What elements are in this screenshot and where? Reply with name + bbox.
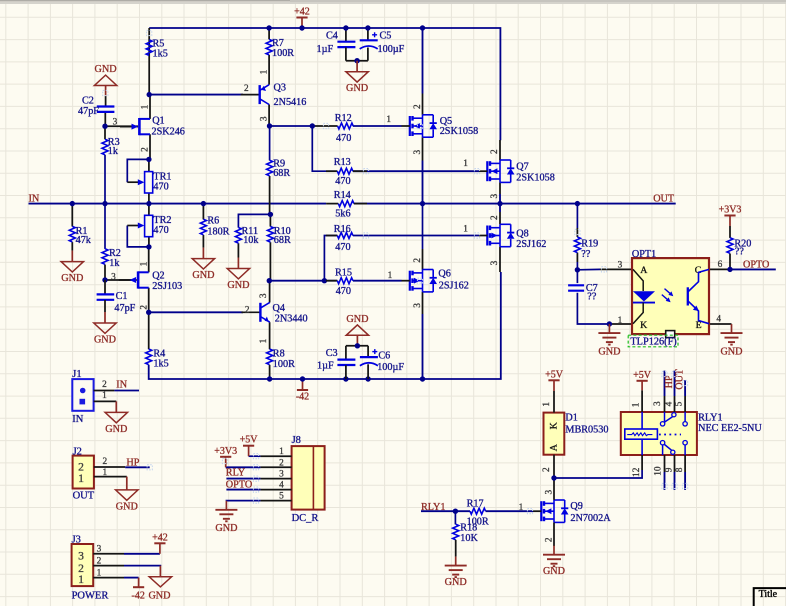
svg-text:180R: 180R: [207, 226, 229, 237]
svg-text:R16: R16: [334, 224, 351, 235]
relay pin 3 wire HP: [664, 396, 666, 412]
wire Q4 emitter to R8: [269, 322, 271, 349]
relay contacts bottom: [660, 441, 664, 445]
ground GND above C3 C6: [356, 335, 358, 346]
svg-text:J8: J8: [292, 435, 301, 446]
capacitor C7: [568, 284, 584, 286]
wire Q5 source to OUT: [422, 137, 424, 160]
svg-text:8: 8: [675, 467, 685, 472]
resistor R18: [454, 511, 456, 524]
svg-text:4: 4: [279, 481, 284, 491]
svg-text:??: ??: [735, 247, 745, 258]
svg-text:5: 5: [675, 401, 685, 406]
ground GND earth at OPT1 K: [607, 321, 612, 326]
svg-text:K: K: [640, 320, 647, 331]
svg-text:A: A: [548, 444, 559, 451]
svg-text:12: 12: [632, 467, 642, 477]
transistor Q2 2SJ103: [137, 271, 140, 288]
svg-text:3: 3: [111, 272, 116, 282]
wire R2 column: [104, 204, 106, 249]
svg-text:DC_R: DC_R: [292, 513, 319, 524]
connector J3 POWER: [72, 544, 94, 586]
svg-text:2: 2: [244, 84, 249, 94]
svg-text:HP: HP: [126, 458, 139, 469]
svg-text:47pF: 47pF: [78, 106, 99, 117]
svg-text:2: 2: [141, 147, 151, 152]
wire Q3 node to R12/R13 tap: [270, 125, 313, 127]
transistor Q9 2N7002A: [540, 501, 542, 521]
wire Q1 drain: [149, 95, 151, 119]
svg-text:2: 2: [102, 380, 107, 390]
wire +42 top rail: [149, 28, 500, 140]
wire R7 top pin: [268, 28, 270, 39]
svg-text:3: 3: [653, 401, 663, 406]
svg-text:47pF: 47pF: [114, 303, 135, 314]
svg-text:J2: J2: [73, 446, 82, 457]
svg-text:1µF: 1µF: [317, 44, 334, 55]
svg-text:GND: GND: [346, 83, 368, 94]
ground GND under R1: [71, 251, 73, 262]
svg-text:GND: GND: [215, 523, 237, 534]
svg-text:470: 470: [336, 286, 351, 297]
svg-text:+5V: +5V: [545, 369, 564, 380]
resistor R3: [102, 139, 108, 155]
wire Q2 gate from R2 node: [105, 279, 131, 281]
svg-text:GND: GND: [61, 273, 83, 284]
J8 pin 3: [260, 478, 291, 480]
svg-text:3: 3: [413, 150, 423, 155]
svg-text:HP: HP: [664, 375, 675, 388]
D1 pin 2 to node: [553, 455, 555, 478]
resistor R13 horizontal: [326, 170, 337, 172]
svg-text:-42: -42: [296, 392, 309, 403]
svg-text:D1: D1: [565, 413, 577, 424]
svg-text:5: 5: [279, 492, 284, 502]
resistor R7: [266, 25, 271, 30]
svg-text:IN: IN: [72, 414, 83, 425]
wire TR1 chain to IN node: [148, 159, 150, 171]
svg-text:1: 1: [519, 503, 524, 513]
svg-text:100R: 100R: [272, 48, 294, 59]
capacitor C3: [345, 346, 347, 360]
svg-text:1µF: 1µF: [317, 360, 334, 371]
wire OPT1 A from R19 node: [577, 268, 600, 270]
wire node to R11: [238, 214, 270, 227]
svg-text:3: 3: [279, 470, 284, 480]
svg-text:1k: 1k: [108, 146, 119, 157]
wire R14 right to OUT label: [354, 203, 676, 205]
svg-text:68R: 68R: [274, 235, 291, 246]
power port +5V at relay: [641, 381, 643, 391]
wire C7 to GND corner and OPT1 pin K: [577, 293, 609, 324]
relay inner pin stubs: [664, 412, 666, 421]
svg-text:10: 10: [653, 466, 663, 476]
wire R8 to rail: [269, 365, 271, 379]
capacitor C1: [104, 280, 106, 294]
svg-text:1: 1: [260, 69, 270, 74]
svg-text:470: 470: [153, 225, 168, 236]
ground GND under R6: [202, 248, 204, 259]
relay pin 12: [641, 455, 643, 470]
junction Q2 source node: [146, 310, 151, 315]
resistor R5: [146, 40, 152, 56]
svg-text:GND: GND: [227, 280, 249, 291]
svg-text:3: 3: [544, 490, 554, 495]
wire C4 C5 common: [346, 60, 368, 62]
wire R5 bottom to node: [148, 40, 150, 95]
svg-text:470: 470: [153, 181, 168, 192]
svg-text:Q9: Q9: [570, 501, 582, 512]
OPT1 LED: [633, 269, 643, 291]
wire R6 column: [202, 204, 204, 220]
svg-text:Q1: Q1: [152, 115, 164, 126]
ground GND at J1: [115, 401, 117, 412]
svg-text:C6: C6: [378, 351, 390, 362]
ground GND under C1: [104, 312, 106, 323]
relay coil feed line: [641, 412, 643, 429]
svg-text:2: 2: [490, 215, 500, 220]
svg-text:1: 1: [259, 338, 269, 343]
ground GND earth under Q9: [553, 546, 555, 555]
svg-text:GND: GND: [105, 424, 127, 435]
wire Q9 source down: [553, 523, 555, 547]
wire -42 bottom rail: [270, 272, 501, 379]
capacitor C4: [345, 28, 347, 41]
wire Q3 collector to node: [268, 105, 270, 127]
wire IN main line: [29, 203, 327, 205]
wire R10 column: [269, 214, 271, 226]
wire R16 left drop to R15 node: [324, 236, 337, 281]
wire Q8 drain from OUT: [499, 204, 501, 212]
wire R13 to Q7 gate: [353, 170, 479, 172]
power port +42 at J3: [159, 543, 161, 554]
J3 pin 2 to GND: [93, 565, 124, 567]
wire Q3 base from R5 node: [149, 94, 243, 96]
svg-text:R15: R15: [335, 268, 352, 279]
wire R20 column: [729, 226, 731, 238]
ground GND under R11: [237, 258, 239, 269]
svg-text:100R: 100R: [273, 359, 295, 370]
svg-text:GND: GND: [720, 347, 742, 358]
svg-text:470: 470: [335, 242, 350, 253]
relay pin 10 stub: [664, 455, 666, 472]
connector J1 selected blue: [72, 379, 93, 411]
svg-text:2SK1058: 2SK1058: [516, 172, 555, 183]
svg-text:+3V3: +3V3: [214, 446, 237, 457]
wire Q9 drain up: [553, 478, 555, 500]
svg-text:2: 2: [413, 258, 423, 263]
svg-text:GND: GND: [94, 334, 116, 345]
relay pin 5 stub: [684, 396, 686, 412]
svg-text:5k6: 5k6: [335, 209, 350, 220]
svg-text:+42: +42: [294, 7, 310, 18]
svg-text:2SK1058: 2SK1058: [440, 126, 479, 137]
svg-text:1: 1: [463, 225, 468, 235]
svg-text:10k: 10k: [243, 235, 259, 246]
power port +42 top: [301, 18, 303, 29]
svg-text:68R: 68R: [273, 168, 290, 179]
wire R9 column: [269, 126, 271, 160]
svg-text:R8: R8: [273, 349, 285, 360]
svg-text:1: 1: [463, 159, 468, 169]
ground GND at J2: [126, 477, 128, 490]
wire Q8 source to rail corner: [499, 247, 501, 272]
ground GND earth at J8: [225, 501, 227, 510]
svg-text:4: 4: [716, 315, 721, 325]
svg-text:4: 4: [665, 401, 675, 406]
svg-text:RLY: RLY: [226, 468, 246, 479]
svg-text:Title: Title: [759, 589, 778, 600]
J8 pin4 wire OPTO: [226, 489, 260, 491]
wire R19 column from OUT: [576, 204, 578, 228]
svg-text:R19: R19: [581, 238, 598, 249]
resistor R15 horizontal: [326, 280, 337, 282]
wire Q7 source to OUT: [499, 182, 501, 194]
wire node to relay pin 12: [554, 470, 642, 478]
svg-text:-42: -42: [132, 591, 145, 602]
svg-text:Q6: Q6: [438, 269, 450, 280]
diode D1 MBR0530 body: [544, 413, 565, 455]
relay contacts top: [660, 422, 664, 426]
resistor R20: [727, 238, 733, 254]
wire R4 to -42 rail corner: [149, 365, 270, 379]
resistor R1: [69, 226, 75, 242]
wire C2 column gate: [104, 112, 106, 126]
OPT1 anchor square: [666, 331, 675, 338]
wire Q5 drain from +42 rail: [422, 28, 424, 94]
power port +3V3 at R20: [729, 216, 731, 227]
svg-text:OPT1: OPT1: [632, 249, 656, 260]
wire Q4 collector node to R15: [269, 280, 337, 282]
junction R20 OPTO: [727, 267, 732, 272]
resistor R4: [146, 349, 152, 365]
power port +5V at D1: [553, 380, 555, 391]
svg-text:C1: C1: [116, 291, 128, 302]
resistor R17 horizontal: [470, 508, 486, 514]
resistor R9: [267, 160, 273, 176]
svg-text:3: 3: [618, 260, 623, 270]
svg-text:100µF: 100µF: [378, 44, 405, 55]
svg-text:2: 2: [97, 556, 102, 566]
svg-text:NEC EE2-5NU: NEC EE2-5NU: [698, 423, 762, 434]
svg-text:J1: J1: [72, 369, 81, 380]
svg-text:GND: GND: [445, 577, 467, 588]
J8 pin2 wire to +3V3: [226, 466, 261, 468]
svg-text:GND: GND: [148, 591, 170, 602]
ground GND earth at OPT1 E: [731, 324, 733, 333]
wire C3 C6 common: [346, 345, 368, 347]
svg-text:+5V: +5V: [240, 435, 259, 446]
title block: [754, 588, 786, 606]
svg-text:2: 2: [542, 467, 552, 472]
ground GND at J3: [159, 566, 161, 577]
TR2 wiper: [127, 226, 149, 247]
J8 pin1 wire to +5V: [249, 455, 261, 457]
resistor R6: [200, 219, 206, 235]
svg-text:C4: C4: [326, 31, 338, 42]
svg-text:OPTO: OPTO: [226, 479, 252, 490]
junction C2 R3 gate: [102, 124, 107, 129]
transistor Q8 2SJ162: [486, 226, 488, 246]
wire R7 to Q3 emitter: [268, 55, 270, 85]
capacitor C5 polarized: [367, 28, 369, 40]
transistor Q3 2N5416: [241, 94, 260, 96]
ground GND earth under R18: [455, 557, 457, 566]
pin 3 A of OPT1: [600, 268, 632, 270]
svg-text:1: 1: [78, 573, 84, 586]
capacitor C2: [97, 105, 115, 107]
svg-text:OPTO: OPTO: [743, 260, 769, 271]
svg-text:R17: R17: [467, 498, 484, 509]
svg-text:3: 3: [490, 194, 500, 199]
svg-text:Q4: Q4: [273, 303, 285, 314]
power port +5V at J8: [248, 446, 250, 457]
wire Q2 source node to Q4 base: [149, 311, 243, 313]
svg-text:2SJ103: 2SJ103: [152, 281, 182, 292]
OPT1 phototransistor: [687, 287, 689, 305]
svg-text:??: ??: [587, 292, 597, 303]
svg-text:Q3: Q3: [274, 83, 286, 94]
svg-text:GND: GND: [116, 501, 138, 512]
wire Q1 source to TR node: [149, 134, 151, 159]
J3 pin 1 to -42: [93, 577, 124, 579]
power port -42 bottom: [302, 379, 304, 390]
svg-text:1k5: 1k5: [153, 49, 168, 60]
junction dots on IN line: [70, 201, 75, 206]
J8 pin3 wire RLY: [226, 478, 260, 480]
svg-text:470: 470: [336, 133, 351, 144]
svg-text:GND: GND: [192, 270, 214, 281]
svg-text:GND: GND: [598, 347, 620, 358]
svg-text:2SK246: 2SK246: [152, 127, 185, 138]
transistor Q1 2SK246: [138, 118, 141, 135]
svg-text:100µF: 100µF: [377, 362, 404, 373]
J2 pin 2 wire HP: [94, 466, 125, 468]
svg-text:2: 2: [245, 305, 250, 315]
svg-text:GND: GND: [346, 314, 368, 325]
svg-text:2: 2: [279, 458, 284, 468]
svg-text:470: 470: [335, 176, 350, 187]
svg-text:1: 1: [279, 447, 284, 457]
wire R19 to C7: [576, 270, 578, 283]
optocoupler OPT1 TLP126 body: [632, 258, 709, 334]
junction dots OUT line: [420, 201, 425, 206]
svg-text:3: 3: [260, 116, 270, 121]
svg-text:1: 1: [386, 115, 391, 125]
wire Q2 source down to R4: [148, 288, 150, 350]
wire Q6 source to rail: [422, 292, 424, 314]
wire R1 column: [71, 204, 73, 227]
J8 pin 4: [260, 489, 291, 491]
svg-text:1: 1: [102, 468, 107, 478]
wire gate Q1: [105, 125, 138, 127]
svg-text:2N5416: 2N5416: [274, 97, 307, 108]
junction D1 Q9 relay: [551, 475, 556, 480]
wire Q7 drain: [499, 140, 501, 160]
J2 pin 1 wire to GND: [94, 476, 127, 478]
ground GND above C2: [105, 86, 107, 97]
svg-text:OUT: OUT: [675, 369, 686, 390]
capacitor C6 polarized: [367, 346, 369, 357]
transistor Q5 2SK1058: [409, 116, 411, 136]
svg-text:2: 2: [544, 537, 554, 542]
svg-text:3: 3: [97, 545, 102, 555]
svg-text:+3V3: +3V3: [719, 205, 742, 216]
relay RLY1 NEC EE2-5NU body: [621, 412, 697, 455]
svg-text:C5: C5: [380, 30, 392, 41]
svg-text:R5: R5: [153, 38, 165, 49]
J3 pin 3 to +42: [93, 553, 124, 555]
svg-text:OUT: OUT: [73, 490, 95, 501]
J8 pin5 wire to GND: [226, 500, 260, 502]
resistor R10: [267, 227, 273, 243]
transistor Q6 2SJ162: [409, 271, 411, 291]
svg-text:TLP126(F): TLP126(F): [630, 337, 676, 348]
svg-text:C3: C3: [326, 348, 338, 359]
svg-text:2: 2: [413, 104, 423, 109]
connector J2: [73, 456, 94, 489]
svg-text:3: 3: [113, 118, 118, 128]
J8 pin 1: [260, 455, 291, 457]
svg-text:RLY1: RLY1: [698, 412, 722, 423]
ground GND under C4 C5: [356, 61, 358, 72]
svg-text:3: 3: [259, 293, 269, 298]
svg-text:3: 3: [78, 549, 84, 562]
junction dots -42 rail: [267, 376, 272, 381]
relay pin 4 wire OUT: [674, 396, 676, 412]
resistor R8: [267, 349, 273, 365]
relay pin 9 stub: [674, 455, 676, 472]
svg-text:2SJ162: 2SJ162: [516, 239, 546, 250]
J1 pin 2 wire with IN net: [94, 390, 115, 392]
svg-text:10K: 10K: [460, 533, 478, 544]
svg-text:2N7002A: 2N7002A: [570, 513, 611, 524]
svg-text:1: 1: [97, 568, 102, 578]
wire TR2 to lower node: [148, 235, 150, 247]
OPT1 comment TLP126(F) with dashed frame: [628, 335, 678, 347]
resistor R11: [235, 228, 241, 244]
svg-text:R12: R12: [335, 113, 352, 124]
relay dotted link: [659, 434, 681, 436]
OPT1 light arrows: [665, 289, 672, 295]
transistor Q4 2N3440: [241, 311, 260, 313]
svg-text:2: 2: [140, 305, 150, 310]
wire tap down to R13: [312, 126, 337, 171]
svg-text:1: 1: [542, 402, 552, 407]
svg-text:GND: GND: [95, 64, 117, 75]
svg-text:1: 1: [78, 472, 84, 485]
relay pin 1 +5V: [641, 390, 643, 412]
trimmer TR1: [145, 172, 153, 193]
svg-text:GND: GND: [543, 566, 565, 577]
junction Q3 collector node: [267, 123, 272, 128]
svg-text:2N3440: 2N3440: [275, 314, 308, 325]
wire R16 to Q8 gate: [353, 235, 479, 237]
resistor R16 horizontal: [326, 235, 337, 237]
svg-text:??: ??: [581, 249, 591, 260]
relay coil: [625, 429, 658, 439]
svg-text:IN: IN: [116, 379, 127, 390]
connector J8 DC_R body: [292, 446, 325, 510]
svg-text:R6: R6: [207, 216, 219, 227]
wire Q2 drain: [148, 247, 150, 272]
J8 pin 2: [260, 466, 291, 468]
svg-text:OUT: OUT: [653, 193, 675, 204]
resistor R12 horizontal: [338, 123, 354, 129]
pin 6 C of OPT1: [709, 268, 730, 270]
svg-text:1: 1: [141, 104, 151, 109]
svg-text:A: A: [640, 265, 647, 276]
